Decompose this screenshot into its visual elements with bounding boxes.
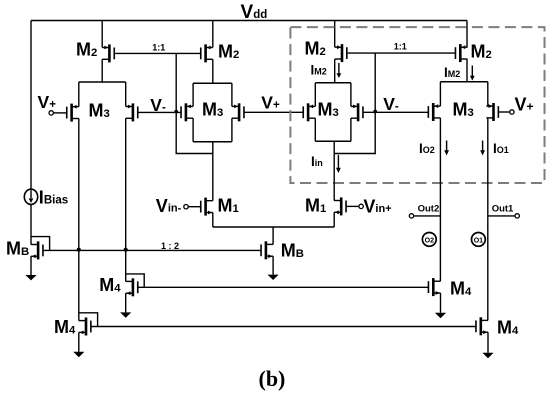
wire M2-4 drain to M3 box4 [466,59,468,82]
wire mirror line 1:2 [43,249,261,251]
current arrow IM2 fourth branch [470,66,475,81]
node O1 circle [472,233,486,247]
transistor M4 lower-left diode [79,318,91,336]
label IM2 left [311,63,327,78]
wire node V+ middle [244,111,302,113]
junction hop right [124,248,128,252]
current arrow IO1 [480,141,485,156]
transistor M2 first [102,44,114,62]
transistor M2 fourth [455,44,467,62]
label IM2 right [444,65,460,80]
wire M4-4 source to ground [487,332,489,353]
current arrow IO2 [444,141,449,156]
label MB left [6,238,29,258]
junction hop left [77,248,81,252]
wire box1 right body down to M4 [125,118,127,281]
label M4 lower-left [54,317,76,337]
node V+ input terminal right [499,110,514,114]
label Out1 [492,204,514,215]
current source IBias [24,188,68,208]
wire box4 left body upper [439,82,441,106]
wire MB2 source to ground [272,256,274,274]
svg-text:1:1: 1:1 [152,42,165,52]
wire MB2 drain to tail [272,227,274,244]
label M2 third [305,39,326,59]
wire M4-3 source to ground [440,293,442,313]
transistor M3 box2 right [232,103,244,121]
transistor M3 box1 right [126,103,138,121]
wire box1 left body upper [78,82,80,107]
node O2 circle [422,233,436,247]
node Out2 terminal [409,214,440,218]
wire M4-2 source to ground [125,293,127,312]
ground M4 lower-right [482,353,493,358]
wire M2-2 drain to M3 box2 [212,59,214,83]
label V- stage1 [150,95,166,115]
svg-text:Out1: Out1 [492,204,514,215]
wire M4 gate line A [138,286,429,288]
label M3 box3 [318,99,339,119]
boundary dashed subcircuit box [290,27,544,183]
wire node V- stage2 [363,111,428,113]
wire M3 box4 top [440,81,487,83]
transistor MB left diode [31,241,43,259]
wire M2-2 source to rail [212,21,214,48]
ground MB left [25,275,36,280]
label IO1 [493,141,509,156]
wire M3 box3 right body [350,83,352,142]
transistor M2 second [201,44,213,62]
label M4 lower-right [497,317,519,337]
wire M2-3 source to rail [334,21,336,48]
transistor M3 box3 right [351,103,363,121]
transistor M3 box4 left [428,103,440,121]
wire M2-1 source to rail [101,21,103,48]
wire M3 box2 top [193,82,232,84]
current arrow IM2 third branch [337,63,342,78]
wire M4-1 source to ground [78,332,80,351]
ground M4 upper-left [120,312,131,317]
transistor M3 box2 left [181,103,193,121]
wire MB1 diode step [31,237,50,251]
label M1 left [218,195,239,215]
svg-text:O1: O1 [474,237,483,244]
label M2 first [76,39,97,59]
transistor M1 left [201,198,213,216]
transistor MB right [261,241,273,259]
label IO2 [419,141,435,156]
wire Vdd rail [31,20,467,22]
node Vin- terminal [184,205,201,209]
wire MB1 source to ground [30,256,32,275]
label V- stage2 [383,94,399,114]
svg-text:Out2: Out2 [418,204,440,215]
wire M3 box3 left body [314,83,316,142]
wire cascode bias drop stage1 [176,53,213,153]
ground M4 lower-left [73,352,84,357]
svg-text:(b): (b) [259,366,286,391]
wire left rail Vdd to IBias [30,21,32,190]
transistor M4 upper-left diode [126,278,138,296]
wire box3 tap to M1-2 drain [333,141,335,200]
transistor M2 third [335,44,347,62]
wire M3 box2 right body [231,83,233,142]
wire M1 tail line [213,226,334,228]
wire M1-2 source down [333,212,335,227]
node Vdd [241,2,268,23]
svg-text:1:1: 1:1 [394,41,407,51]
label 1:1 first [152,42,165,52]
wire M3 box3 top [315,82,351,84]
transistor M4 upper-right [428,278,440,296]
caption (b) [259,366,286,391]
wire box4 right body upper [487,82,489,106]
wire IBias to MB drain [30,204,32,244]
wire box1 right body upper [125,82,127,107]
label 1:1 second [394,41,407,51]
wire M4-2 diode step [126,274,145,287]
wire M2-4 source to rail corner [466,21,468,48]
node V+ input terminal left [49,111,67,115]
label M3 box1 [89,100,110,120]
ground MB right [268,275,279,280]
label M4 upper-left [99,275,121,295]
ground M4 upper-right [435,313,446,318]
wire M3 box2 left body [192,83,194,142]
wire M1-1 source down [212,213,214,228]
transistor M3 box3 left [303,103,315,121]
node Vin+ terminal [346,204,363,208]
transistor M3 box4 right [486,103,498,121]
wire box4 right body down O1 line [487,118,489,321]
wire M3 box3 bottom [315,140,351,142]
label 1 : 2 [161,241,179,251]
label Iin [311,154,323,169]
wire box2 tap to M1-1 drain [212,142,214,201]
label M3 box4 [453,99,474,119]
wire box4 left body down O2 line [439,118,441,281]
label V+ left [38,92,57,112]
svg-text:O2: O2 [425,237,434,244]
wire cascode bias drop stage2 [334,53,375,153]
wire gate line 1:1 first mirror [115,52,201,54]
label Vin- [156,196,182,216]
label V+ right [515,94,534,114]
label M4 upper-right [450,278,472,298]
junction hop stage2 crossing [373,110,377,114]
wire M3 box2 bottom [193,141,232,143]
label M3 box2 [202,99,223,119]
wire M3 box1 top [79,81,126,83]
label MB right [281,241,304,261]
wire gate line 1:1 second mirror [348,52,456,54]
label M2 second [218,41,239,61]
wire M4-1 diode step [79,313,98,327]
label M1 right [305,195,326,215]
wire M4 gate line B [91,326,476,328]
wire box1 left body down to M4 [78,119,80,321]
junction hop stage1 crossing [174,110,178,114]
wire M2-3 drain to M3 box3 [334,59,336,83]
label M2 fourth [471,41,492,61]
node Out1 terminal [488,214,520,218]
transistor M3 box1 left [67,104,79,122]
svg-text:1 : 2: 1 : 2 [161,241,179,251]
label V+ middle [261,93,280,113]
wire node V- stage1 [138,111,181,113]
current arrow Iin [336,155,341,173]
transistor M1 right [334,197,346,215]
wire M2-1 drain to M3 box1 [101,59,103,82]
transistor M4 lower-right [476,317,488,335]
label Out2 [418,204,440,215]
label Vin+ [363,197,391,217]
